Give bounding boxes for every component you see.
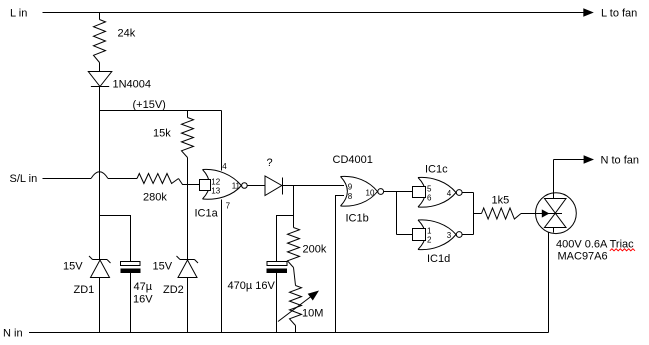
wire D1 cathode down to ZD1 (through +15V junction) <box>99 87 101 260</box>
wire +15V rail <box>100 110 222 112</box>
svg-text:13: 13 <box>211 186 220 195</box>
wire 47u to N rail <box>130 273 132 333</box>
svg-text:IC1c: IC1c <box>425 164 448 176</box>
resistor 280k <box>137 174 179 184</box>
svg-text:ZD2: ZD2 <box>163 284 184 296</box>
resistor 24k <box>94 20 106 63</box>
wire 280k to IC1a input <box>179 179 200 185</box>
wire branch to 470u cap <box>277 216 294 262</box>
wire to IC1d input <box>397 234 413 236</box>
wire triac MT2 up <box>553 160 555 199</box>
wire ZD1 to N rail <box>99 278 101 333</box>
svg-text:IC1d: IC1d <box>427 253 450 265</box>
svg-text:10: 10 <box>366 189 375 198</box>
wire IC1a output to D2 <box>247 185 265 187</box>
svg-text:9: 9 <box>348 183 353 192</box>
svg-text:200k: 200k <box>303 244 327 256</box>
svg-text:280k: 280k <box>143 192 167 204</box>
capacitor 470u 16V <box>267 262 287 266</box>
diode D1 1N4004 <box>88 72 112 87</box>
wire junction down to 200k chain <box>293 186 295 228</box>
svg-text:10M: 10M <box>302 308 323 320</box>
wire 200k to 10M <box>294 268 296 286</box>
wire join to 1k5 <box>474 213 482 215</box>
svg-text:470µ 16V: 470µ 16V <box>228 280 276 292</box>
svg-text:11: 11 <box>232 181 241 190</box>
wire N to fan <box>554 159 585 161</box>
svg-text:L to fan: L to fan <box>601 8 637 20</box>
wire hop to 280k <box>108 178 137 180</box>
svg-text:400V 0.6A Triac: 400V 0.6A Triac <box>556 239 634 251</box>
svg-text:7: 7 <box>226 202 231 211</box>
svg-text:16V: 16V <box>133 294 153 306</box>
op IC1b gate body <box>341 176 384 206</box>
wire IC1b output to IC1c <box>384 191 413 193</box>
svg-text:47µ: 47µ <box>134 281 153 293</box>
diode D2 ? <box>265 176 282 196</box>
wire 1k5 to triac gate <box>521 213 542 215</box>
arrow L to fan <box>583 8 594 16</box>
svg-text:1k5: 1k5 <box>492 195 510 207</box>
svg-text:1N4004: 1N4004 <box>113 79 152 91</box>
svg-text:2: 2 <box>427 235 432 244</box>
svg-text:15V: 15V <box>153 261 173 273</box>
wire IC1a pin4 to +15V rail <box>221 111 223 171</box>
wire L rail (top) <box>43 12 585 14</box>
wire IC1b pin8 lead <box>336 196 345 333</box>
wire IC1a pin7 to N rail <box>221 200 223 333</box>
potentiometer arrow <box>278 297 311 322</box>
wire 15k down to ZD2 (through S/L junction) <box>187 158 189 260</box>
svg-text:IC1a: IC1a <box>195 208 219 220</box>
svg-text:(+15V): (+15V) <box>133 99 166 111</box>
potentiometer 10M <box>290 286 302 326</box>
wire 470u to N rail <box>276 273 278 333</box>
svg-text:5: 5 <box>427 185 432 194</box>
wire junction L rail to 24k <box>99 13 101 20</box>
wire IC1c output join <box>462 192 473 194</box>
zener ZD1 15V <box>89 256 111 278</box>
wire hop over vertical (no connection) <box>91 172 108 179</box>
wire junction down to IC1d <box>396 192 398 235</box>
wire branch to 47u cap <box>100 216 131 262</box>
svg-text:MAC97A6: MAC97A6 <box>558 251 608 263</box>
IC1a input box <box>200 180 211 191</box>
wire D2 to IC1b pin9 <box>283 185 345 187</box>
wire 10M to N rail <box>295 326 297 333</box>
svg-text:4: 4 <box>222 162 227 171</box>
svg-text:L in: L in <box>10 8 27 20</box>
svg-text:12: 12 <box>211 177 220 186</box>
svg-text:6: 6 <box>427 193 432 202</box>
svg-text:S/L in: S/L in <box>10 173 38 185</box>
svg-text:4: 4 <box>447 189 452 198</box>
triac gate arrow <box>542 209 550 217</box>
zener ZD2 15V <box>177 256 199 278</box>
svg-text:ZD1: ZD1 <box>74 284 95 296</box>
svg-text:N in: N in <box>3 328 23 340</box>
wire output join vertical <box>473 193 475 235</box>
svg-text:IC1b: IC1b <box>346 213 369 225</box>
resistor 15k <box>182 118 194 158</box>
resistor 200k <box>288 228 300 268</box>
svg-text:1: 1 <box>427 227 432 236</box>
svg-text:3: 3 <box>447 231 452 240</box>
wire +15V rail to 15k <box>187 111 189 118</box>
svg-text:24k: 24k <box>118 28 136 40</box>
op IC1c gate body <box>418 177 462 207</box>
wire N rail (bottom) <box>29 332 549 334</box>
svg-text:15V: 15V <box>63 261 83 273</box>
arrow N to fan <box>584 155 594 163</box>
svg-text:N to fan: N to fan <box>601 155 640 167</box>
wire ZD2 to N rail <box>187 278 189 333</box>
resistor 1k5 <box>482 208 522 219</box>
spellcheck squiggle under Triac <box>610 249 635 251</box>
triac TR1 body <box>536 193 577 234</box>
wire triac MT1 to N rail <box>548 232 550 332</box>
IC1d input box <box>413 229 426 241</box>
svg-text:?: ? <box>267 157 273 169</box>
wire 24k to D1 <box>99 63 101 72</box>
svg-text:8: 8 <box>348 192 353 201</box>
capacitor 47u 16V <box>121 262 141 266</box>
op IC1d gate body <box>418 220 462 250</box>
svg-text:CD4001: CD4001 <box>333 154 373 166</box>
svg-text:15k: 15k <box>153 128 171 140</box>
wire S/L in lead <box>43 178 92 180</box>
op IC1a gate body <box>203 169 248 199</box>
IC1c input box <box>413 187 426 198</box>
wire IC1d output join <box>462 234 473 236</box>
